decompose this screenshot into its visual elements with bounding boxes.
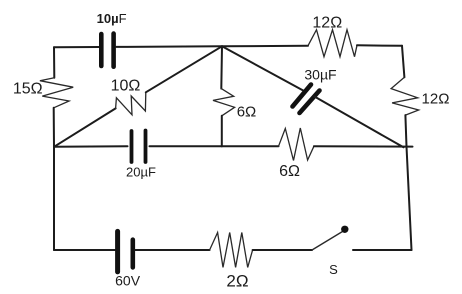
svg-text:20µF: 20µF bbox=[126, 165, 156, 180]
capacitor C2 20uF plates bbox=[132, 131, 146, 163]
wire diagonal right upper from apex to capacitor C3 bbox=[222, 46, 305, 91]
resistor R6 6ohm vertical scribble bbox=[213, 89, 235, 116]
wire diagonal lower-left from middle junction to resistor R5 bbox=[54, 108, 116, 146]
wire left edge lower to bottom-left corner bbox=[53, 147, 55, 250]
wire resistor R7 to switch bbox=[253, 249, 312, 251]
resistor R3 15ohm left zigzag bbox=[40, 78, 73, 108]
wire diagonal upper from resistor R5 to top apex node bbox=[146, 46, 222, 92]
wire bottom-left corner to battery bbox=[54, 249, 115, 251]
svg-text:6Ω: 6Ω bbox=[279, 163, 300, 180]
capacitor C1 10uF plates bbox=[101, 34, 113, 67]
wire right edge lower to bottom-right corner bbox=[407, 147, 412, 251]
wire switch to bottom-right corner bbox=[353, 249, 412, 251]
wire top apex node to resistor R 12ohm top bbox=[222, 45, 308, 48]
wire middle left segment to capacitor C2 bbox=[54, 145, 128, 148]
wire vertical from apex to resistor R6 bbox=[220, 46, 223, 88]
resistor R2 12ohm right zigzag bbox=[391, 77, 419, 115]
wire capacitor C1 to top apex node bbox=[116, 45, 222, 48]
wire battery to resistor R7 bbox=[135, 249, 209, 251]
resistor R5 10ohm diagonal scribble bbox=[116, 92, 146, 115]
wire vertical resistor R6 to middle T junction bbox=[221, 116, 223, 147]
svg-text:10Ω: 10Ω bbox=[111, 78, 141, 95]
wire capacitor C2 to middle T junction bbox=[150, 145, 222, 147]
switch S blade bbox=[312, 232, 343, 251]
svg-text:12Ω: 12Ω bbox=[422, 91, 450, 108]
svg-text:12Ω: 12Ω bbox=[312, 15, 342, 32]
wire resistor R1 to top-right corner bbox=[357, 44, 402, 47]
svg-text:60V: 60V bbox=[115, 273, 141, 289]
wire resistor R4 to right middle junction bbox=[314, 145, 413, 147]
wire right edge upper segment bbox=[402, 46, 404, 78]
resistor R1 12ohm top zigzag bbox=[308, 30, 357, 57]
wire left edge to middle junction bbox=[53, 108, 55, 147]
svg-text:15Ω: 15Ω bbox=[13, 81, 43, 98]
svg-text:6Ω: 6Ω bbox=[237, 104, 257, 121]
wire top-left corner to capacitor C1 bbox=[54, 46, 99, 48]
battery B1 60V plates bbox=[118, 231, 133, 272]
wire diagonal right lower from capacitor C3 to right middle junction bbox=[314, 96, 403, 147]
resistor R4 6ohm middle zigzag bbox=[279, 128, 314, 161]
capacitor C3 30uF slanted plates bbox=[293, 85, 320, 114]
svg-text:30µF: 30µF bbox=[304, 66, 336, 82]
svg-text:2Ω: 2Ω bbox=[226, 271, 248, 290]
wire right edge to middle junction bbox=[405, 115, 406, 146]
resistor R7 2ohm bottom zigzag bbox=[210, 233, 253, 268]
svg-text:10µF: 10µF bbox=[97, 11, 127, 26]
wire middle T junction to resistor R4 bbox=[222, 145, 279, 147]
switch S contact dot bbox=[341, 226, 348, 233]
wire left edge upper segment bbox=[53, 47, 55, 78]
svg-text:S: S bbox=[329, 262, 338, 277]
